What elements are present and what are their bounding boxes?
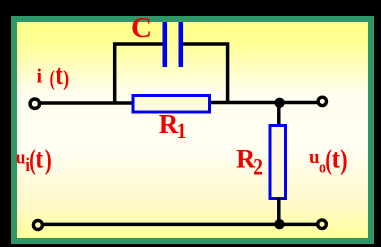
wire: bottom return	[44, 223, 317, 227]
svg-text:(: (	[50, 67, 55, 91]
input terminal (top left)	[30, 99, 40, 109]
label R1	[159, 109, 187, 143]
svg-text:t: t	[332, 144, 341, 174]
wire: input terminal to R1	[40, 101, 133, 105]
svg-text:): )	[340, 145, 347, 176]
svg-text:1: 1	[177, 117, 187, 143]
capacitor C	[163, 22, 184, 67]
resistor R2	[270, 126, 286, 199]
wire: R2 to bottom node	[277, 198, 281, 226]
svg-text:u: u	[16, 147, 26, 168]
label uo(t)	[309, 144, 348, 177]
svg-text:C: C	[131, 12, 152, 44]
wire: left branch up to capacitor	[115, 44, 163, 103]
svg-text:): )	[45, 145, 52, 176]
svg-text:2: 2	[253, 154, 263, 180]
svg-text:R: R	[159, 109, 179, 139]
output terminal (bottom right)	[318, 220, 327, 229]
junction node top	[274, 98, 284, 108]
label i(t)	[37, 59, 70, 92]
svg-text:): )	[63, 67, 69, 91]
wire: R1 to output terminal	[210, 101, 318, 105]
label R2	[236, 144, 263, 180]
wire: capacitor to right branch down	[183, 44, 228, 103]
resistor R1	[133, 96, 210, 113]
input terminal (bottom left)	[33, 221, 42, 230]
junction node bottom	[274, 219, 284, 229]
svg-text:t: t	[55, 59, 63, 91]
output terminal (top right)	[318, 97, 326, 105]
svg-text:t: t	[35, 144, 43, 174]
wire: node to R2	[277, 101, 281, 126]
label ui(t)	[16, 144, 52, 176]
svg-text:i: i	[37, 65, 43, 87]
